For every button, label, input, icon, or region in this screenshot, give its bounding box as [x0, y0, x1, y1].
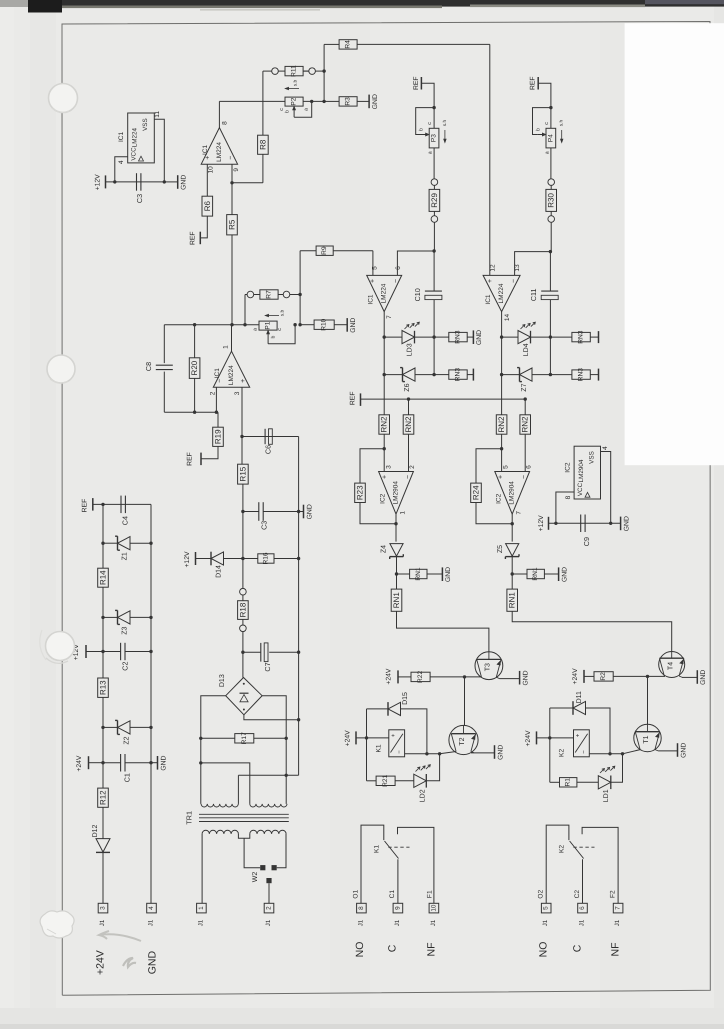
P1 wiper arrow: [267, 332, 269, 344]
svg-text:NF: NF: [426, 943, 438, 957]
junction: [101, 503, 104, 506]
svg-text:T4: T4: [667, 662, 674, 670]
capacitor C8: [163, 325, 165, 363]
resistor R23: [355, 483, 366, 502]
junction: [500, 447, 503, 450]
wire NO contact: [582, 827, 618, 903]
svg-text:C3: C3: [260, 521, 269, 530]
wire to RN3: [550, 336, 572, 338]
right rail: [150, 504, 152, 903]
svg-text:−: −: [397, 750, 403, 754]
svg-text:IC1: IC1: [368, 294, 375, 305]
svg-text:VSS: VSS: [589, 451, 596, 464]
wire RN2 to pin5: [501, 434, 503, 471]
svg-text:R16: R16: [262, 552, 269, 564]
svg-text:9: 9: [394, 906, 401, 910]
svg-text:J1: J1: [197, 919, 204, 926]
junction: [101, 650, 104, 653]
wire RN2 to pin3: [383, 434, 385, 471]
wire LD3 to column: [415, 336, 435, 338]
wire NO contact: [398, 827, 434, 903]
wire P3 to R29: [433, 148, 435, 179]
svg-text:1: 1: [399, 511, 406, 515]
svg-text:10: 10: [430, 904, 437, 912]
wire bridge left arm: [201, 696, 226, 804]
wire P3 wiper loop: [416, 108, 434, 135]
resistor R9: [316, 246, 333, 255]
wire P1 wiper loop: [268, 325, 295, 344]
wire D15 to minus node: [401, 709, 427, 754]
wire C6 row: [242, 436, 299, 438]
wire RN3 to bar: [467, 374, 473, 376]
wire K2 minus to node: [589, 753, 622, 755]
wire IC2b output to Z5: [511, 524, 513, 542]
junction: [243, 323, 246, 326]
svg-text:2: 2: [266, 906, 273, 910]
svg-text:R21: R21: [382, 774, 389, 786]
resistor RN1: [391, 589, 402, 611]
wire R1 branch: [549, 738, 551, 782]
svg-text:D11: D11: [576, 691, 583, 703]
wire +24V to R2: [584, 675, 594, 677]
junction: [241, 651, 244, 654]
svg-text:RN2: RN2: [380, 416, 389, 433]
capacitor C10: [433, 251, 435, 291]
svg-text:R14: R14: [99, 570, 108, 585]
svg-text:c: c: [277, 328, 283, 331]
junction: [240, 435, 243, 438]
svg-text:+: +: [382, 475, 389, 479]
wire R4 to bus: [357, 43, 490, 45]
svg-text:GND: GND: [561, 567, 568, 582]
svg-text:O2: O2: [538, 889, 545, 898]
svg-text:IC1: IC1: [485, 294, 492, 305]
junction: [549, 106, 552, 109]
svg-text:GND: GND: [700, 670, 707, 685]
resistor R21: [376, 776, 395, 785]
wire pin6 jog: [397, 251, 434, 275]
wire R22 to T3 base: [430, 676, 481, 678]
svg-text:T2: T2: [459, 737, 466, 745]
op-amp U2a IC2 LM2904 pins 1,2,3: [379, 472, 414, 515]
wire Z4 to junction: [396, 557, 398, 590]
svg-text:RN3: RN3: [578, 330, 585, 344]
capacitor C1: [103, 762, 121, 764]
ground: [677, 743, 679, 757]
capacitor C11: [549, 252, 551, 292]
resistor RN2: [403, 415, 414, 434]
connector J1 pin 1: [197, 903, 207, 913]
svg-text:b: b: [419, 128, 425, 131]
wire node to T2 base: [440, 752, 457, 754]
svg-text:RN1: RN1: [392, 592, 401, 609]
pad: [548, 216, 555, 223]
svg-text:W2: W2: [252, 872, 259, 883]
ground: [368, 95, 370, 109]
pencil scribble: [99, 931, 141, 941]
svg-text:R6: R6: [203, 200, 212, 211]
junction: [554, 522, 557, 525]
svg-text:K1: K1: [374, 845, 381, 853]
svg-text:K1: K1: [376, 744, 383, 752]
svg-text:C1: C1: [123, 773, 132, 782]
svg-text:LM2904: LM2904: [509, 481, 516, 505]
transformer TR1 primary winding: [202, 830, 238, 834]
wire P4 to R30: [550, 148, 552, 179]
ground: [558, 567, 560, 581]
svg-text:R10: R10: [321, 318, 328, 330]
ground: [519, 671, 521, 685]
wire R2 to T4 base: [613, 675, 665, 677]
pad: [247, 291, 254, 298]
relay contact K2: [546, 825, 569, 903]
junction: [425, 752, 428, 755]
far rail lower: [298, 720, 300, 776]
svg-text:3: 3: [234, 391, 241, 395]
svg-text:RN2: RN2: [404, 416, 413, 433]
svg-text:GND: GND: [306, 504, 313, 519]
svg-text:+: +: [498, 475, 505, 479]
svg-text:RN2: RN2: [521, 416, 530, 433]
IC U2 power block IC2 LM2904: [574, 446, 600, 499]
svg-text:R15: R15: [238, 466, 247, 481]
svg-text:R29: R29: [430, 193, 439, 208]
wire center tap row 2: [285, 774, 288, 777]
diode D12: [96, 839, 110, 852]
svg-text:s.b: s.b: [293, 79, 299, 86]
svg-text:C6: C6: [264, 445, 273, 454]
svg-text:C9: C9: [582, 537, 591, 546]
wire output pin8 up: [218, 101, 220, 127]
P1 annotation s.b: [266, 315, 279, 317]
wire bridge bottom arm: [244, 715, 299, 720]
junction: [383, 447, 386, 450]
resistor RN1: [507, 589, 518, 611]
wire pin5 jog: [372, 251, 374, 276]
resistor R20: [194, 325, 196, 358]
junction: [163, 180, 166, 183]
svg-text:−: −: [217, 379, 224, 383]
op-amp U1d IC1 LM224 pins 12,13,14: [483, 275, 520, 311]
resistor R14: [98, 568, 109, 587]
resistor R4: [339, 40, 357, 49]
svg-text:J1: J1: [614, 919, 621, 926]
wire P2 wiper loop: [294, 101, 312, 117]
svg-text:P3: P3: [431, 134, 438, 142]
wire T1 emitter to ground: [658, 750, 677, 752]
wire junction riser: [323, 44, 325, 101]
resistor R1: [560, 778, 577, 787]
svg-text:IC1: IC1: [214, 368, 221, 379]
svg-text:P4: P4: [547, 134, 554, 142]
LED LD1: [598, 776, 611, 789]
svg-text:VCC: VCC: [130, 147, 137, 161]
wire IC2a output to Z4: [395, 524, 397, 542]
resistor RN3: [449, 370, 467, 379]
svg-text:NF: NF: [610, 943, 622, 957]
relay coil K2: [574, 730, 590, 757]
wire T2 emitter to ground: [471, 752, 495, 754]
svg-text:J1: J1: [542, 919, 549, 926]
junction: [646, 675, 649, 678]
svg-text:a: a: [428, 151, 434, 154]
junction: [293, 323, 296, 326]
P2 wiper arrow: [293, 108, 295, 118]
svg-text:LD1: LD1: [603, 789, 610, 802]
pad: [431, 179, 438, 186]
svg-text:LM224: LM224: [132, 127, 139, 147]
resistor RN2: [520, 415, 531, 434]
wire LD2 to node: [426, 754, 439, 781]
svg-text:2: 2: [209, 391, 216, 395]
junction: [297, 718, 300, 721]
svg-text:LD4: LD4: [523, 343, 530, 356]
connector J1 pin 4: [147, 903, 157, 913]
svg-text:NO: NO: [354, 942, 366, 958]
svg-text:b: b: [535, 128, 541, 131]
svg-text:GND: GND: [372, 94, 379, 109]
junction: [500, 335, 503, 338]
svg-text:6: 6: [395, 266, 402, 270]
wire pin10 to R6: [206, 164, 208, 196]
wire pin14 rail: [501, 312, 503, 415]
potentiometer P4: [546, 128, 556, 148]
svg-text:GND: GND: [522, 670, 529, 685]
svg-text:C: C: [572, 944, 584, 952]
IC U1 power block IC1 LM224: [128, 113, 155, 163]
wire R3 row: [324, 100, 339, 102]
svg-text:R23: R23: [356, 485, 365, 500]
junction: [193, 323, 196, 326]
relay coil K1: [389, 730, 405, 757]
svg-text:+: +: [576, 733, 582, 737]
wire P2 to junction: [303, 100, 324, 102]
svg-text:LD2: LD2: [420, 789, 427, 802]
wire feedback R23: [395, 514, 397, 524]
LED LD4: [502, 336, 518, 338]
svg-text:+: +: [370, 279, 377, 283]
wire: [245, 294, 247, 296]
svg-text:C1: C1: [389, 890, 396, 899]
resistor R17: [199, 737, 202, 740]
svg-text:10: 10: [207, 166, 214, 174]
wire node to T1 base: [623, 750, 641, 754]
resistor R19: [217, 412, 219, 427]
svg-text:LM2904: LM2904: [578, 459, 585, 482]
transistor T1: [634, 724, 661, 751]
wire REF to P3 column: [421, 83, 434, 128]
resistor R11: [278, 70, 285, 72]
svg-text:14: 14: [504, 314, 511, 322]
svg-text:1: 1: [223, 345, 230, 349]
svg-text:LM224: LM224: [498, 283, 505, 303]
svg-text:J1: J1: [394, 919, 401, 926]
pad: [272, 68, 279, 75]
junction: [432, 106, 435, 109]
diode D14: [210, 552, 212, 566]
wire common to J1-6: [582, 859, 584, 903]
svg-text:−: −: [393, 279, 400, 283]
wire primary left to J1-1: [201, 834, 203, 903]
wire feedback row top: [164, 324, 232, 326]
resistor R6: [202, 196, 213, 216]
zener Z6: [384, 374, 402, 376]
junction: [500, 373, 503, 376]
wire node A row: [232, 324, 259, 326]
wire LD4 to column: [531, 336, 551, 338]
punch hole 2: [47, 355, 75, 383]
svg-text:RN1: RN1: [532, 567, 539, 581]
svg-text:C8: C8: [144, 362, 153, 371]
resistor R22: [411, 672, 430, 681]
resistor R15: [238, 464, 249, 484]
svg-text:RN3: RN3: [455, 368, 462, 382]
svg-text:J1: J1: [578, 919, 585, 926]
svg-text:Z2: Z2: [124, 736, 131, 744]
wire T1 collector: [647, 676, 649, 724]
junction: [383, 373, 386, 376]
wire rail GND tap: [299, 511, 304, 513]
wire pin4 to +12V rail: [115, 157, 128, 182]
wire R5 to node A: [231, 235, 233, 325]
punch hole 3: [46, 632, 75, 661]
wire corner to RN2: [524, 399, 526, 415]
junction: [241, 557, 244, 560]
svg-text:+: +: [240, 379, 247, 383]
svg-text:RN3: RN3: [578, 368, 585, 382]
resistor R30: [550, 185, 552, 189]
svg-text:C7: C7: [263, 662, 272, 671]
connector J1 pin 8: [357, 903, 367, 913]
zener Z5: [506, 544, 519, 557]
wire +12V to D14: [196, 558, 212, 560]
svg-text:R4: R4: [345, 40, 352, 49]
wire pin3 rail: [241, 437, 243, 465]
wire R29 to node: [433, 222, 435, 251]
svg-text:GND: GND: [623, 516, 630, 531]
svg-text:c: c: [544, 122, 550, 125]
connector J1 pin 7: [613, 903, 623, 913]
svg-text:+24V: +24V: [95, 950, 107, 975]
diode D11: [550, 707, 573, 709]
zener Z2: [101, 726, 104, 729]
wire to RN3: [550, 374, 572, 376]
svg-text:GND: GND: [146, 951, 158, 975]
wire D11 branch: [549, 708, 551, 738]
diode D15: [367, 708, 389, 710]
svg-text:P1: P1: [265, 321, 272, 329]
wire R9 row: [300, 250, 316, 252]
svg-text:8: 8: [358, 906, 365, 910]
svg-text:REF: REF: [82, 499, 89, 513]
junction: [113, 180, 116, 183]
svg-text:6: 6: [526, 465, 533, 469]
svg-text:RN3: RN3: [455, 330, 462, 344]
resistor RN1: [410, 569, 427, 578]
resistor R18: [242, 595, 244, 601]
resistor R3: [339, 97, 357, 106]
svg-text:+12V: +12V: [538, 515, 545, 532]
P3 annotation s.h: [444, 130, 446, 142]
svg-text:R19: R19: [214, 429, 223, 444]
wire RN1 to ground: [544, 573, 558, 575]
junction: [383, 335, 386, 338]
P2 annotation s.b: [286, 88, 299, 90]
svg-text:LM224: LM224: [228, 365, 235, 385]
wire R7 branch riser: [244, 295, 246, 325]
wire primary link: [238, 834, 249, 838]
capacitor C4: [120, 496, 122, 513]
transformer TR1 secondary winding: [201, 804, 238, 807]
wire REF to P4 column: [538, 83, 551, 128]
junction: [395, 572, 398, 575]
svg-text:−: −: [511, 279, 518, 283]
connector J1 pin 6: [578, 903, 588, 913]
junction: [241, 510, 244, 513]
punch hole 1: [49, 84, 78, 113]
wire to RN3: [434, 374, 449, 376]
wire R10 to ground: [334, 324, 347, 326]
wire pin9 down: [231, 164, 233, 214]
svg-text:K2: K2: [558, 845, 565, 853]
wire R6 to REF: [200, 216, 207, 238]
wire common to J1-9: [397, 859, 399, 903]
wire output row to P2: [219, 100, 285, 102]
wire RN1 to T4 collector: [512, 611, 672, 652]
wire T2 collector: [464, 677, 466, 726]
ground: [620, 517, 622, 531]
ground: [346, 318, 348, 332]
svg-text:2: 2: [409, 465, 416, 469]
junction: [230, 181, 233, 184]
wire RN3 to bar: [590, 336, 598, 338]
svg-text:C11: C11: [529, 288, 538, 301]
svg-text:+12V: +12V: [95, 174, 102, 191]
relay contact K1: [361, 825, 384, 903]
wire +24V to K1: [356, 737, 389, 739]
svg-text:b: b: [271, 335, 277, 338]
junction: [549, 250, 552, 253]
svg-text:Z3: Z3: [122, 627, 129, 635]
wire primary tap to W2: [244, 838, 260, 867]
connector J1 pin 3: [98, 903, 108, 913]
white redaction box: [625, 23, 724, 465]
wire D12 to J1-3: [102, 852, 104, 903]
wire RN1 to ground: [427, 573, 442, 575]
svg-text:IC1: IC1: [202, 144, 209, 155]
svg-text:7: 7: [386, 315, 393, 319]
wire stub to RN2: [408, 399, 410, 415]
svg-text:LD3: LD3: [407, 343, 414, 356]
wire P4 wiper loop: [533, 108, 551, 135]
svg-text:R2: R2: [600, 672, 607, 681]
transistor T2: [449, 725, 478, 754]
svg-text:IC2: IC2: [496, 493, 503, 504]
svg-text:O1: O1: [353, 889, 360, 898]
junction: [432, 335, 435, 338]
wire +12V rail: [106, 181, 165, 183]
svg-text:TR1: TR1: [185, 811, 194, 825]
svg-text:C3: C3: [135, 194, 144, 203]
junction: [365, 736, 368, 739]
svg-text:a: a: [253, 328, 259, 331]
wire D14 to rail: [224, 558, 243, 560]
wire D15 branch: [366, 709, 368, 738]
connector J1 pin 9: [393, 903, 403, 913]
svg-text:R12: R12: [99, 790, 108, 805]
transistor T3: [475, 652, 503, 680]
svg-text:REF: REF: [190, 231, 197, 245]
